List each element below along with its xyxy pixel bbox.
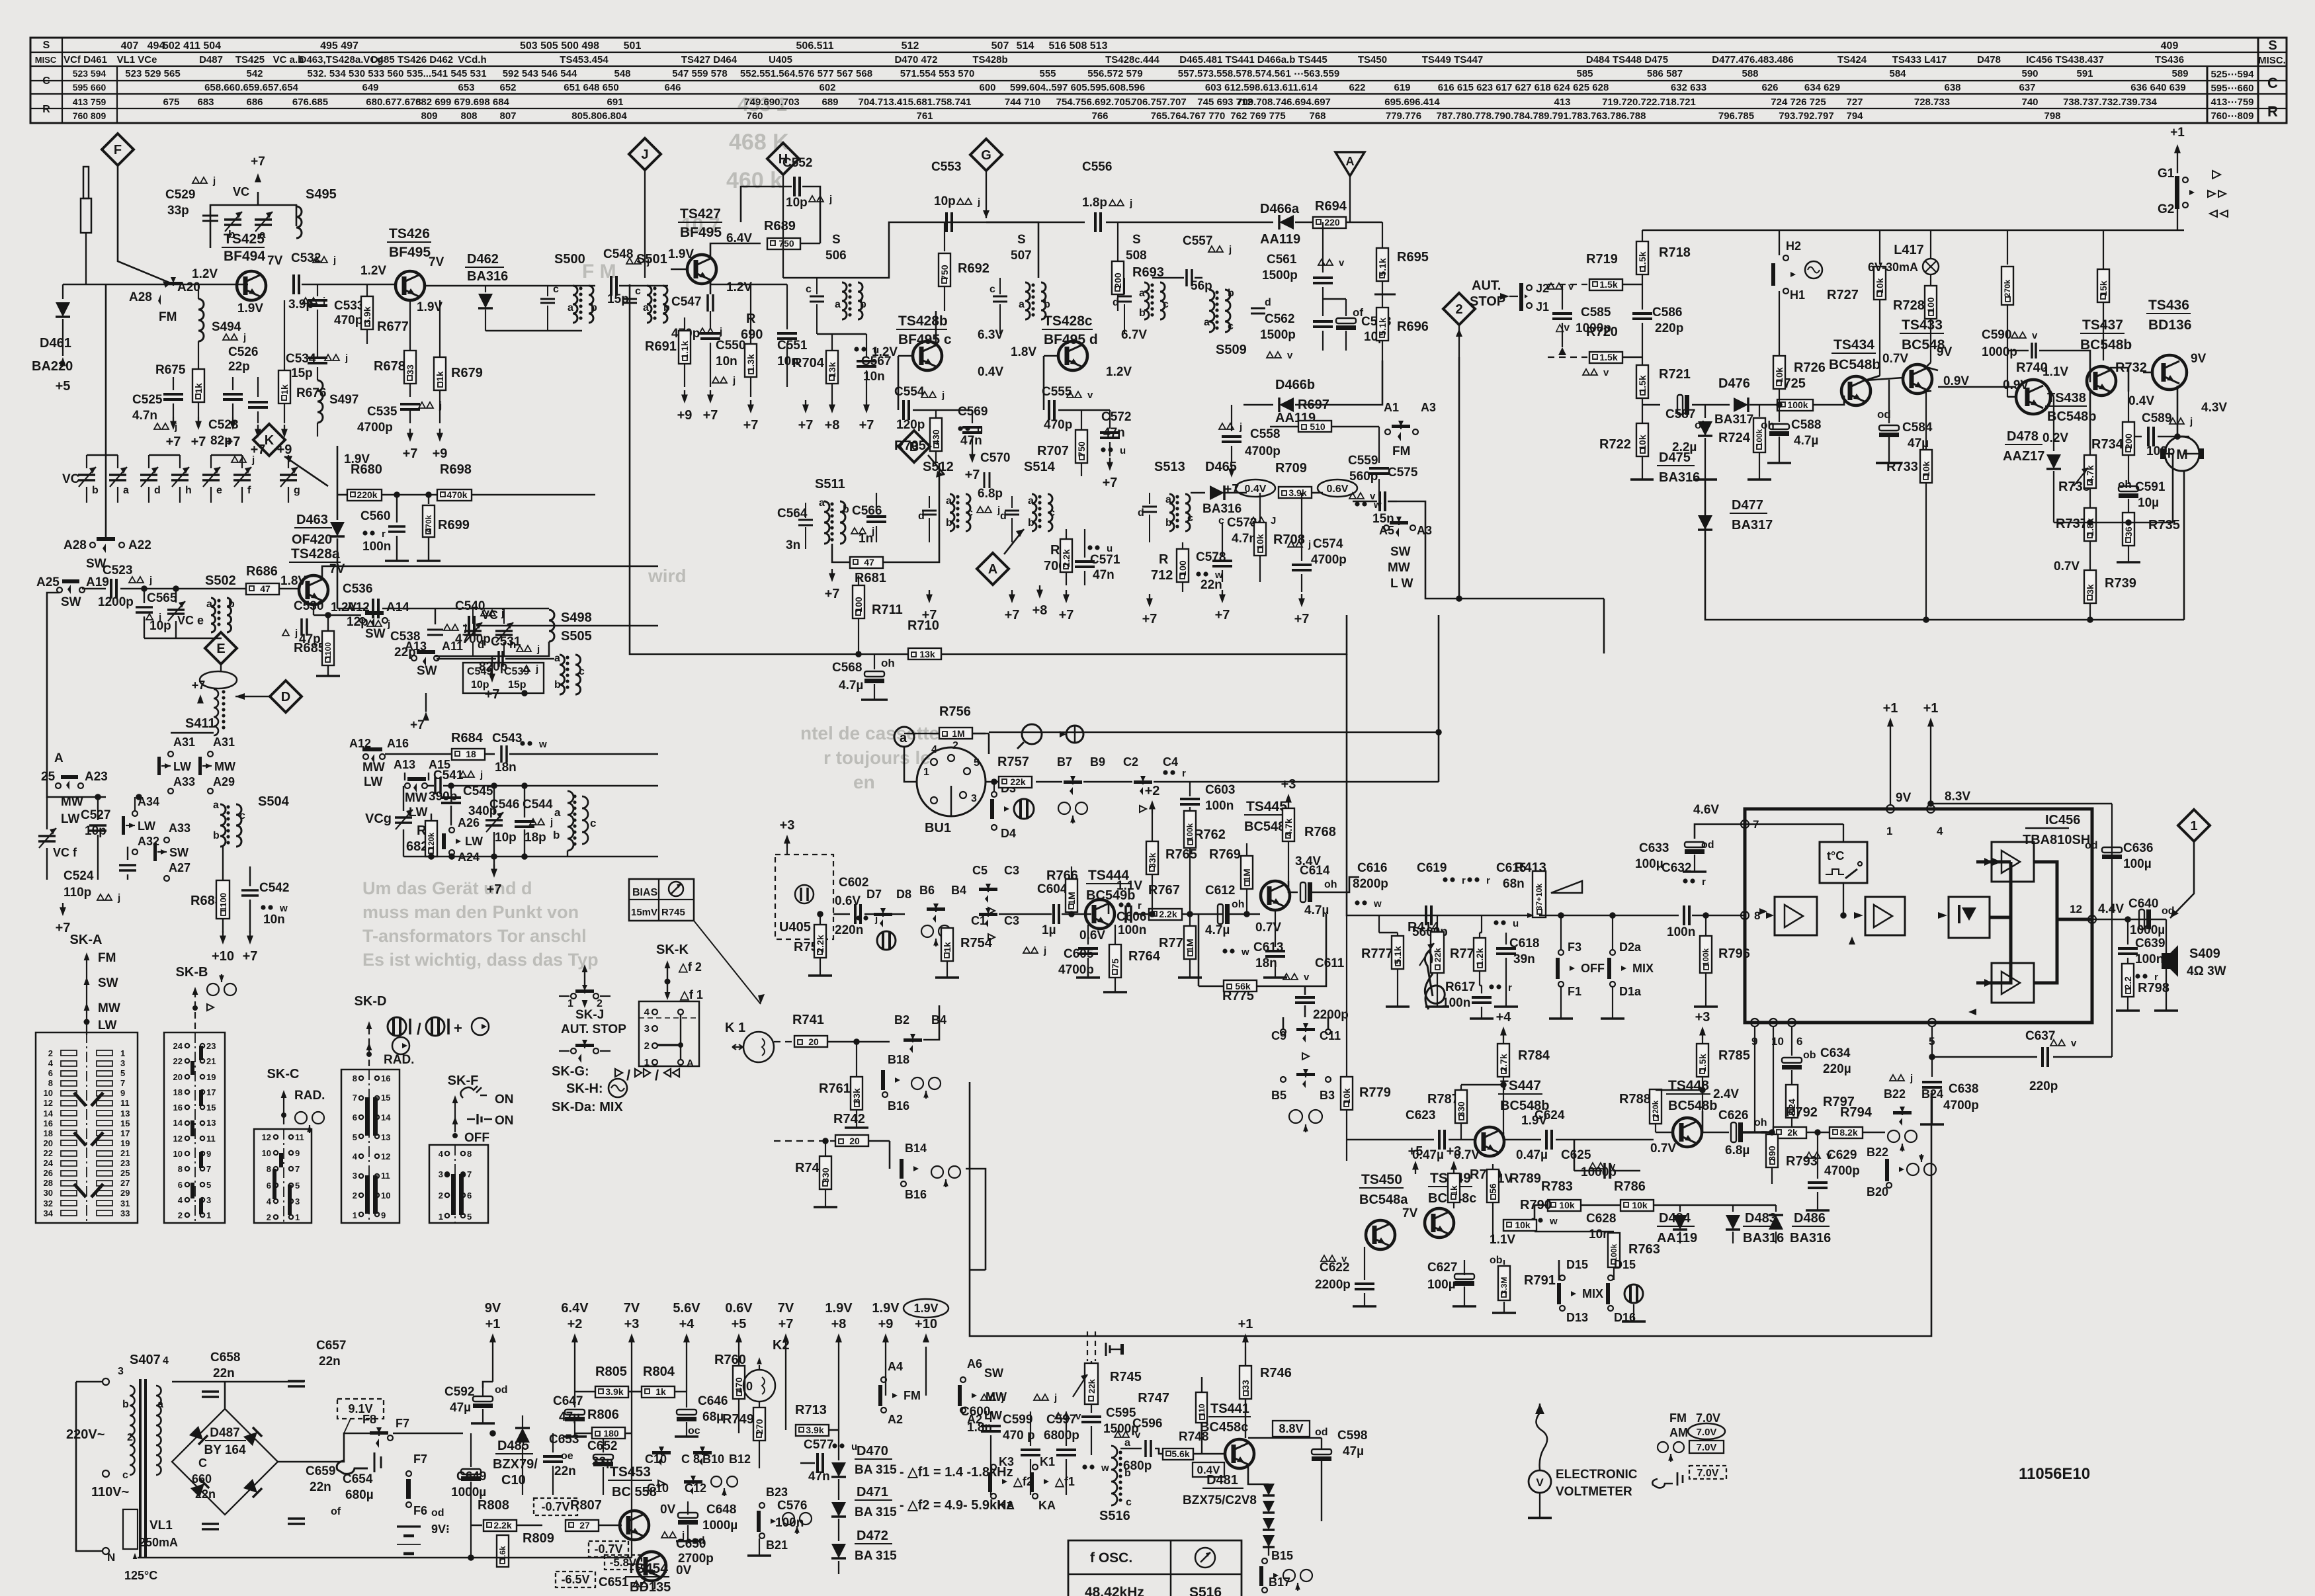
svg-text:R807: R807 — [570, 1498, 602, 1513]
svg-text:+5: +5 — [1408, 1144, 1423, 1159]
svg-text:BA316: BA316 — [1202, 502, 1242, 516]
svg-text:+3: +3 — [780, 818, 795, 833]
svg-text:10p: 10p — [934, 194, 956, 208]
svg-text:100: 100 — [853, 597, 864, 612]
svg-text:68µ: 68µ — [702, 1410, 724, 1424]
svg-text:805.806.804: 805.806.804 — [571, 110, 627, 122]
svg-text:R679: R679 — [451, 366, 483, 380]
svg-text:5: 5 — [353, 1132, 357, 1142]
svg-text:TS453: TS453 — [610, 1464, 651, 1480]
svg-text:MW: MW — [1388, 561, 1410, 575]
svg-text:2: 2 — [644, 1040, 650, 1052]
svg-text:1.6k: 1.6k — [498, 1546, 507, 1562]
svg-text:v: v — [1087, 390, 1093, 401]
svg-text:/: / — [417, 1021, 421, 1038]
svg-text:BC548b: BC548b — [1829, 357, 1880, 372]
svg-text:b: b — [92, 485, 99, 496]
svg-text:33: 33 — [405, 364, 415, 375]
svg-text:B21: B21 — [766, 1538, 788, 1552]
svg-text:a: a — [1139, 288, 1145, 299]
svg-text:523 529 565: 523 529 565 — [125, 68, 180, 79]
svg-text:22k: 22k — [1010, 777, 1026, 787]
svg-text:1.1V: 1.1V — [2042, 365, 2068, 379]
svg-text:LW: LW — [173, 760, 191, 773]
svg-text:10k: 10k — [1632, 1200, 1648, 1210]
gang interconnect wires — [87, 493, 278, 515]
svg-text:1000p: 1000p — [1982, 345, 2017, 359]
svg-text:C647: C647 — [553, 1394, 583, 1408]
svg-text:A6: A6 — [967, 1357, 982, 1370]
capacitor C603 100n — [1163, 770, 1167, 775]
svg-text:5.1k: 5.1k — [1377, 258, 1388, 276]
svg-text:15mV: 15mV — [631, 907, 657, 918]
svg-text:MW: MW — [98, 1001, 120, 1015]
svg-text:R792: R792 — [1786, 1105, 1818, 1120]
svg-text:TS428c.444: TS428c.444 — [1105, 54, 1159, 65]
svg-text:4.6V: 4.6V — [1693, 803, 1719, 817]
svg-text:d: d — [918, 511, 925, 522]
svg-text:9: 9 — [381, 1210, 386, 1220]
svg-text:2.2k: 2.2k — [1061, 549, 1072, 567]
svg-text:C629: C629 — [1827, 1148, 1857, 1162]
resistor R780 1k — [1451, 1161, 1457, 1170]
svg-text:0.6V: 0.6V — [835, 894, 861, 908]
svg-text:1k: 1k — [942, 942, 952, 952]
svg-text:S: S — [1017, 233, 1026, 247]
svg-text:36: 36 — [2123, 526, 2134, 537]
svg-text:B7: B7 — [1057, 755, 1072, 769]
svg-text:R786: R786 — [1614, 1179, 1646, 1194]
svg-text:R737: R737 — [2056, 517, 2087, 531]
svg-text:AM: AM — [1669, 1426, 1688, 1439]
svg-text:TS424: TS424 — [1837, 54, 1867, 65]
svg-text:J: J — [641, 147, 648, 162]
resistor R677 3.9k — [366, 284, 368, 296]
svg-text:D8: D8 — [896, 888, 911, 901]
wire TS428b collector up — [935, 311, 937, 343]
svg-text:638: 638 — [1944, 82, 1960, 93]
svg-text:B9: B9 — [1090, 755, 1105, 769]
svg-text:599.604..597 605.595.608.596: 599.604..597 605.595.608.596 — [1010, 82, 1145, 93]
svg-text:R783: R783 — [1541, 1179, 1573, 1194]
svg-text:532. 534 530 533 560 535...541: 532. 534 530 533 560 535...541 545 531 — [307, 68, 486, 79]
svg-text:5: 5 — [120, 1068, 125, 1078]
svg-text:C568: C568 — [832, 661, 862, 675]
svg-text:220k: 220k — [357, 489, 377, 500]
svg-text:0.4V: 0.4V — [2128, 394, 2154, 408]
svg-text:FM: FM — [1669, 1411, 1687, 1425]
svg-text:682 699 679.698 684: 682 699 679.698 684 — [415, 97, 509, 108]
svg-text:1.5k: 1.5k — [1599, 279, 1617, 290]
svg-text:808: 808 — [460, 110, 477, 122]
svg-text:C556: C556 — [1082, 160, 1112, 174]
svg-text:FM: FM — [159, 310, 177, 324]
svg-text:C591: C591 — [2135, 480, 2166, 494]
svg-text:j: j — [941, 390, 945, 401]
coil S494 — [198, 284, 199, 299]
svg-text:D465.481 TS441 D466a.b TS44: D465.481 TS441 D466a.b TS445 — [1179, 54, 1327, 65]
svg-text:+7: +7 — [1215, 608, 1230, 622]
svg-text:1.2V: 1.2V — [872, 345, 898, 359]
svg-text:SW: SW — [417, 664, 437, 678]
svg-text:470: 470 — [734, 1377, 744, 1393]
svg-text:+7: +7 — [965, 468, 980, 482]
svg-text:17: 17 — [206, 1087, 216, 1097]
svg-text:A33: A33 — [169, 821, 190, 835]
svg-text:1.2V: 1.2V — [1106, 365, 1132, 379]
driver bridge block — [1949, 897, 1990, 938]
svg-text:557.573.558.578.574.561 ⋯563.5: 557.573.558.578.574.561 ⋯563.559 — [1178, 68, 1339, 79]
svg-text:BA220: BA220 — [32, 359, 73, 374]
svg-text:TS450: TS450 — [1361, 1172, 1402, 1187]
svg-text:S516: S516 — [1099, 1509, 1130, 1523]
oscillator caps C600 C599 C597 — [981, 1394, 988, 1400]
svg-text:BC548b: BC548b — [1668, 1099, 1717, 1113]
svg-text:R686: R686 — [246, 564, 278, 579]
svg-text:C557: C557 — [1183, 234, 1212, 248]
svg-text:R694: R694 — [1315, 199, 1347, 214]
capacitor C571 47n — [1087, 545, 1092, 550]
svg-text:525⋯594: 525⋯594 — [2210, 69, 2254, 80]
svg-text:IC456 TS438.437: IC456 TS438.437 — [2026, 54, 2104, 65]
svg-text:690: 690 — [741, 327, 763, 342]
svg-text:506.511: 506.511 — [796, 40, 834, 52]
svg-text:779.776: 779.776 — [1386, 110, 1421, 122]
svg-text:h: h — [185, 485, 192, 496]
svg-text:j: j — [1001, 1392, 1004, 1404]
supply +4 R784 — [1500, 1027, 1507, 1036]
svg-text:BF495: BF495 — [389, 245, 431, 260]
svg-text:S514: S514 — [1024, 460, 1056, 474]
svg-text:LW: LW — [138, 819, 155, 833]
resistor R678 33 — [409, 300, 411, 351]
svg-text:oc: oc — [688, 1425, 700, 1437]
svg-text:△f 1: △f 1 — [679, 988, 703, 1001]
supply arrows +7..+10 — [782, 1333, 789, 1343]
svg-text:G1: G1 — [2158, 167, 2175, 181]
tape box bottom/left/right edges — [970, 1082, 1931, 1336]
svg-text:C: C — [42, 75, 50, 87]
svg-text:VCd.h: VCd.h — [458, 54, 486, 65]
svg-text:c: c — [239, 810, 245, 821]
svg-text:j: j — [345, 353, 348, 364]
svg-text:592 543 546 544: 592 543 546 544 — [503, 68, 577, 79]
svg-text:D475: D475 — [1659, 450, 1691, 465]
triangle connector A — [1335, 152, 1365, 176]
svg-text:R790: R790 — [1520, 1198, 1552, 1212]
svg-text:S: S — [2268, 38, 2277, 53]
svg-text:30: 30 — [44, 1188, 53, 1198]
svg-text:2.2k: 2.2k — [1159, 909, 1177, 919]
svg-text:4.4V: 4.4V — [2098, 902, 2124, 916]
svg-text:4700p: 4700p — [1943, 1099, 1979, 1113]
voltage -0.7V dashed — [534, 1498, 577, 1515]
connector J2 J1 — [1519, 283, 1523, 311]
svg-text:TS427 D464: TS427 D464 — [681, 54, 737, 65]
svg-text:a: a — [1019, 299, 1025, 310]
svg-text:765.764.767 770: 765.764.767 770 — [1151, 110, 1226, 122]
svg-text:7V: 7V — [429, 255, 444, 269]
svg-text:21: 21 — [120, 1148, 130, 1158]
svg-text:7: 7 — [467, 1169, 472, 1179]
svg-text:r: r — [1508, 982, 1512, 993]
svg-text:762 769 775: 762 769 775 — [1230, 110, 1285, 122]
svg-text:VOLTMETER: VOLTMETER — [1556, 1485, 1632, 1499]
svg-text:10k: 10k — [1515, 1220, 1531, 1230]
svg-text:18p: 18p — [525, 831, 546, 845]
svg-text:32: 32 — [44, 1198, 53, 1208]
svg-text:+10: +10 — [915, 1317, 937, 1331]
svg-text:47µ: 47µ — [1343, 1445, 1364, 1458]
svg-text:0.9V: 0.9V — [2003, 378, 2029, 392]
capacitor C629 4700p — [1806, 1152, 1812, 1158]
svg-text:b: b — [228, 228, 235, 241]
svg-text:D472: D472 — [857, 1529, 888, 1543]
svg-text:K1: K1 — [1040, 1455, 1055, 1468]
svg-text:18: 18 — [44, 1128, 53, 1138]
svg-text:5: 5 — [295, 1181, 300, 1191]
svg-text:RAD.: RAD. — [294, 1089, 325, 1103]
svg-text:27: 27 — [579, 1520, 590, 1531]
svg-text:L W: L W — [1390, 577, 1413, 591]
svg-text:c: c — [1163, 299, 1169, 310]
svg-text:TS447: TS447 — [1500, 1078, 1541, 1093]
svg-text:B22: B22 — [1884, 1087, 1906, 1101]
svg-text:TS433 L417: TS433 L417 — [1892, 54, 1947, 65]
svg-text:+: + — [454, 1020, 462, 1036]
svg-text:C531: C531 — [491, 635, 521, 649]
svg-text:of: of — [331, 1506, 341, 1517]
svg-text:0.6V: 0.6V — [725, 1301, 753, 1316]
svg-text:6: 6 — [48, 1068, 53, 1078]
svg-text:R735: R735 — [2148, 518, 2180, 532]
svg-text:749.690.703: 749.690.703 — [744, 97, 799, 108]
svg-text:j: j — [977, 196, 980, 208]
svg-text:10: 10 — [173, 1149, 183, 1159]
svg-text:10n: 10n — [716, 355, 737, 368]
switch F3 OFF F1 — [1558, 950, 1564, 955]
table frame — [30, 38, 2287, 123]
wire long bus y989 — [630, 284, 1347, 654]
svg-text:4: 4 — [439, 1149, 444, 1159]
arrow to K — [284, 456, 328, 486]
svg-text:571.554 553 570: 571.554 553 570 — [900, 68, 975, 79]
svg-text:S495: S495 — [306, 187, 337, 202]
svg-text:AUT. STOP: AUT. STOP — [561, 1023, 626, 1036]
svg-text:C551: C551 — [777, 339, 808, 353]
svg-text:c: c — [1228, 321, 1234, 332]
svg-text:BF495: BF495 — [680, 225, 722, 240]
svg-text:9: 9 — [295, 1148, 300, 1158]
svg-text:K 1: K 1 — [725, 1021, 745, 1035]
svg-text:C5: C5 — [972, 864, 988, 877]
svg-text:-6.5V: -6.5V — [561, 1573, 589, 1586]
svg-text:SK-Da: MIX: SK-Da: MIX — [552, 1100, 623, 1114]
svg-text:oh: oh — [2118, 478, 2132, 491]
svg-text:SK-K: SK-K — [656, 943, 689, 957]
svg-text:8200p: 8200p — [1353, 877, 1388, 891]
svg-text:C625: C625 — [1561, 1148, 1591, 1162]
svg-text:j: j — [550, 817, 553, 828]
connector J — [629, 138, 661, 170]
svg-text:+7: +7 — [859, 418, 874, 433]
svg-text:C571: C571 — [1090, 553, 1120, 567]
svg-text:muss man den Punkt von: muss man den Punkt von — [362, 902, 579, 922]
svg-text:+1: +1 — [1923, 701, 1939, 716]
svg-text:R681: R681 — [855, 571, 886, 585]
svg-text:R785: R785 — [1718, 1048, 1750, 1063]
output amp top — [1992, 842, 2034, 882]
svg-text:R684: R684 — [451, 731, 484, 745]
svg-text:a: a — [1124, 1437, 1130, 1449]
svg-text:J2: J2 — [1536, 282, 1549, 295]
svg-text:2: 2 — [267, 1212, 271, 1222]
svg-text:47n: 47n — [1093, 568, 1115, 582]
svg-text:766: 766 — [1091, 110, 1108, 122]
svg-text:1: 1 — [439, 1212, 443, 1222]
svg-text:15: 15 — [381, 1093, 390, 1103]
svg-text:C657: C657 — [316, 1339, 346, 1353]
svg-text:D13: D13 — [1566, 1311, 1588, 1324]
svg-text:R742: R742 — [833, 1112, 865, 1126]
svg-text:ON: ON — [495, 1093, 514, 1107]
svg-text:6V-30mA: 6V-30mA — [1868, 261, 1918, 274]
svg-text:330: 330 — [820, 1167, 831, 1183]
svg-text:523 594: 523 594 — [73, 68, 106, 79]
svg-text:1k: 1k — [193, 383, 204, 394]
svg-text:6.8p: 6.8p — [978, 487, 1003, 501]
svg-text:584: 584 — [1889, 68, 1906, 79]
svg-text:b: b — [1228, 288, 1234, 299]
svg-text:R711: R711 — [872, 603, 903, 617]
svg-text:d: d — [1113, 297, 1119, 308]
svg-text:C592: C592 — [444, 1385, 474, 1399]
svg-text:a: a — [568, 302, 573, 314]
svg-text:4700p: 4700p — [357, 421, 393, 435]
svg-text:BF495 d: BF495 d — [1044, 332, 1098, 347]
svg-text:1000p: 1000p — [1576, 321, 1611, 335]
svg-text:2: 2 — [353, 1191, 357, 1200]
svg-text:12: 12 — [381, 1152, 390, 1161]
svg-text:KA: KA — [1038, 1499, 1056, 1512]
svg-text:5.1k: 5.1k — [1377, 317, 1388, 335]
svg-text:4.7µ: 4.7µ — [1205, 923, 1230, 937]
svg-text:S411: S411 — [185, 716, 216, 731]
svg-text:47n: 47n — [960, 434, 982, 448]
svg-text:BA316: BA316 — [1790, 1231, 1831, 1245]
svg-text:K3: K3 — [999, 1455, 1014, 1468]
svg-text:10k: 10k — [1774, 367, 1785, 383]
svg-text:R739: R739 — [2105, 576, 2136, 591]
svg-text:100n: 100n — [2135, 952, 2164, 966]
svg-text:S504: S504 — [258, 794, 290, 809]
svg-text:1.8p: 1.8p — [1082, 196, 1107, 210]
svg-text:B16: B16 — [888, 1099, 909, 1113]
svg-text:R787: R787 — [1427, 1092, 1459, 1107]
svg-text:C628: C628 — [1586, 1212, 1616, 1226]
svg-text:2: 2 — [439, 1191, 443, 1200]
svg-text:+7: +7 — [703, 408, 718, 423]
svg-text:B: B — [909, 440, 919, 454]
svg-text:C575: C575 — [1388, 466, 1418, 480]
svg-text:1k: 1k — [435, 371, 445, 382]
capacitor C558 4700p — [1219, 423, 1226, 429]
SK-A slashes — [74, 1093, 103, 1106]
svg-text:STOP: STOP — [1470, 294, 1505, 309]
svg-text:430: 430 — [931, 429, 941, 445]
svg-text:R749: R749 — [722, 1412, 754, 1427]
svg-text:120k: 120k — [427, 832, 436, 850]
svg-text:602: 602 — [819, 82, 835, 93]
wire from F to antenna switch — [118, 165, 171, 283]
svg-text:C596: C596 — [1132, 1417, 1162, 1431]
ramp symbol — [1551, 881, 1582, 893]
svg-text:SK-D: SK-D — [355, 994, 387, 1009]
svg-text:j: j — [732, 375, 736, 386]
resistor R691 1.1k — [684, 317, 685, 331]
svg-text:od: od — [431, 1507, 444, 1519]
svg-text:+7: +7 — [825, 587, 840, 601]
svg-text:1000µ: 1000µ — [2130, 923, 2165, 937]
wire R756 loop to tape bus — [988, 734, 990, 754]
svg-text:R707: R707 — [1037, 444, 1069, 458]
svg-text:6: 6 — [1796, 1035, 1802, 1048]
svg-text:D7: D7 — [866, 888, 882, 901]
svg-text:en: en — [853, 772, 875, 792]
svg-text:12: 12 — [173, 1134, 183, 1144]
svg-text:B17: B17 — [1269, 1575, 1290, 1589]
svg-text:C523: C523 — [103, 564, 132, 577]
svg-text:+7: +7 — [191, 435, 206, 449]
svg-text:0.7V: 0.7V — [1255, 921, 1281, 935]
svg-text:a: a — [946, 495, 952, 507]
svg-text:BA317: BA317 — [1732, 518, 1773, 532]
svg-text:D478: D478 — [1977, 54, 2001, 65]
svg-text:MIX: MIX — [1582, 1287, 1603, 1300]
svg-text:+7: +7 — [1005, 608, 1020, 622]
wire antenna to mixer bus — [63, 284, 248, 286]
svg-text:BD136: BD136 — [2148, 317, 2191, 333]
svg-text:7: 7 — [353, 1093, 357, 1103]
svg-text:125°C: 125°C — [124, 1569, 157, 1582]
svg-text:C549: C549 — [467, 666, 492, 677]
wire to TS426 — [302, 284, 397, 286]
svg-text:270: 270 — [754, 1419, 765, 1435]
svg-text:470k: 470k — [446, 489, 467, 500]
capacitor C618 39n — [1494, 920, 1498, 925]
svg-text:24: 24 — [173, 1041, 183, 1051]
svg-text:413 759: 413 759 — [73, 97, 106, 107]
svg-text:C637: C637 — [2025, 1029, 2055, 1043]
svg-text:d: d — [1265, 297, 1271, 308]
svg-text:j: j — [719, 326, 722, 337]
svg-text:v: v — [1135, 1429, 1141, 1441]
svg-text:754.756.692.705.: 754.756.692.705. — [1056, 97, 1134, 108]
svg-text:R745: R745 — [1110, 1370, 1142, 1384]
svg-text:R691: R691 — [645, 339, 677, 354]
transformer S503 — [568, 791, 573, 851]
svg-text:+7: +7 — [1059, 608, 1074, 622]
svg-text:750: 750 — [1076, 441, 1087, 457]
svg-text:5: 5 — [467, 1212, 472, 1222]
svg-text:10: 10 — [381, 1191, 390, 1200]
svg-text:+7: +7 — [1294, 612, 1310, 626]
svg-text:a: a — [643, 302, 649, 314]
svg-text:4700p: 4700p — [455, 632, 491, 646]
svg-text:220µ: 220µ — [1823, 1062, 1851, 1076]
svg-text:TS428a: TS428a — [291, 546, 340, 562]
svg-text:BA317: BA317 — [1714, 413, 1753, 427]
